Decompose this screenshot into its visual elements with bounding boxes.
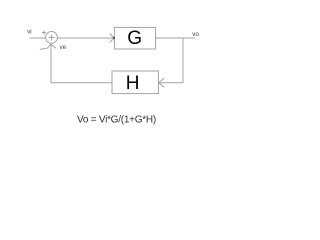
svg-text:H: H	[126, 73, 140, 94]
minus sign (feedback polarity)	[40, 48, 47, 49]
summing junction	[46, 32, 58, 44]
junction dot at G input	[113, 37, 115, 39]
wire: input vi to summing junction	[30, 37, 46, 39]
wire: block G to output vo	[156, 37, 195, 39]
arrowhead into block H	[159, 78, 165, 87]
wire: summing junction to block G	[57, 37, 114, 39]
svg-text:Vo = Vi*G/(1+G*H): Vo = Vi*G/(1+G*H)	[77, 114, 156, 125]
block G box	[114, 27, 155, 49]
block H box	[112, 71, 158, 94]
plus sign (vi input polarity)	[42, 30, 46, 34]
wire: feedback up to summing junction	[50, 44, 52, 83]
svg-text:G: G	[127, 28, 142, 49]
plus sign inside summing junction	[49, 35, 55, 41]
svg-text:vi: vi	[27, 29, 31, 35]
wire: block H output to feedback corner	[51, 82, 112, 84]
arrowhead into block G	[110, 34, 115, 43]
svg-text:ve: ve	[60, 44, 67, 51]
svg-text:vo: vo	[192, 31, 199, 38]
wire: output junction down to feedback	[182, 38, 184, 83]
wire: feedback to block H input	[159, 82, 183, 84]
arrowhead into summing junction	[47, 44, 56, 48]
